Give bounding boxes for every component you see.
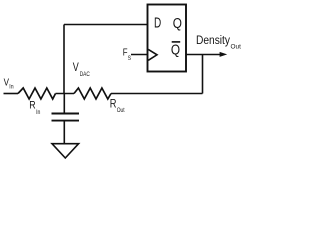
resistor R_In xyxy=(18,88,56,99)
svg-text:R: R xyxy=(110,98,117,110)
wire: output feedback drop xyxy=(202,55,204,94)
wire: node segment between R_In and R_Out xyxy=(56,93,75,95)
svg-text:Out: Out xyxy=(117,107,125,114)
svg-text:D: D xyxy=(154,16,161,32)
flip-flop U1 body xyxy=(148,5,187,72)
capacitor C1 plates xyxy=(52,113,80,115)
clock triangle on U1 xyxy=(148,49,157,60)
svg-text:Q: Q xyxy=(173,16,182,32)
wire: top wire to D input xyxy=(64,24,148,26)
svg-text:DAC: DAC xyxy=(80,71,90,78)
arrowhead Density_Out xyxy=(220,52,228,57)
capacitor C1 top lead xyxy=(63,94,65,113)
svg-text:S: S xyxy=(128,55,132,62)
Q-bar overbar xyxy=(172,41,181,43)
svg-text:In: In xyxy=(36,109,40,116)
wire: V_In lead-in xyxy=(4,93,19,95)
svg-text:Density: Density xyxy=(196,35,230,47)
wire: V_DAC vertical xyxy=(63,25,65,94)
svg-text:In: In xyxy=(9,83,13,90)
wire: R_Out to output drop xyxy=(111,93,203,95)
svg-text:V: V xyxy=(4,76,9,88)
wire: Q-bar output to Density_Out xyxy=(187,54,222,56)
svg-text:Q: Q xyxy=(171,43,180,59)
svg-text:V: V xyxy=(73,62,79,74)
resistor R_Out xyxy=(74,88,111,99)
wire: F_S clock lead xyxy=(131,54,148,56)
svg-text:Out: Out xyxy=(231,44,242,51)
capacitor C1 bottom lead xyxy=(63,122,65,144)
ground xyxy=(52,144,79,158)
svg-text:R: R xyxy=(29,100,35,112)
